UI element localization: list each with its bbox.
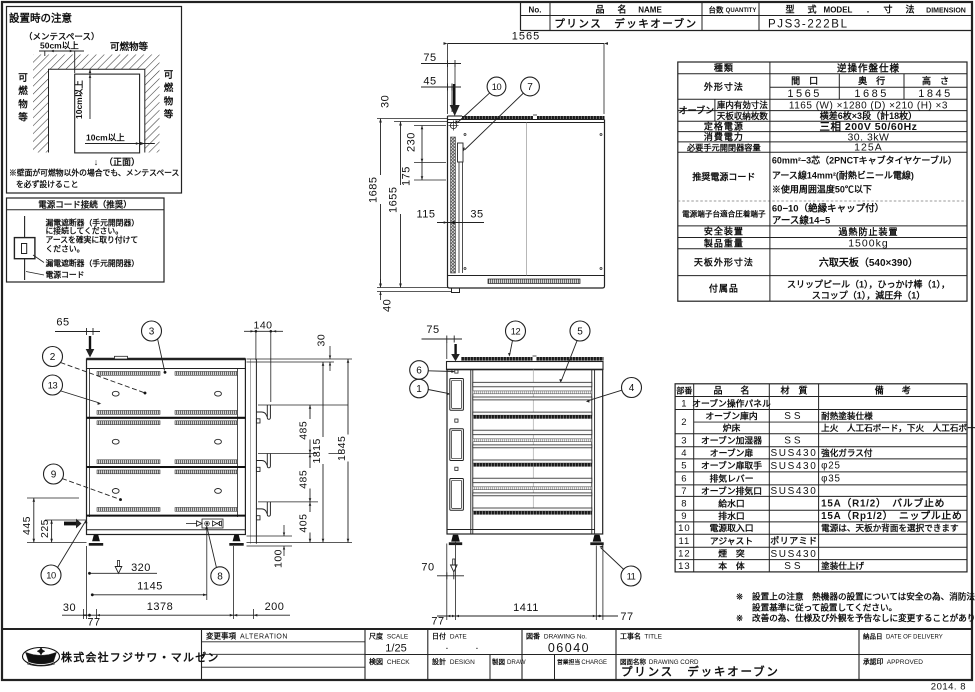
wall hatch region — [33, 55, 160, 153]
svg-text:法: 法 — [905, 4, 914, 15]
balloon 4 — [622, 378, 642, 398]
rear view: power inlet arrow (black, pointing right) — [64, 522, 76, 526]
svg-text:営業担当: 営業担当 — [557, 658, 580, 666]
balloon 7 — [521, 77, 540, 96]
svg-text:8: 8 — [217, 572, 223, 583]
svg-text:1/25: 1/25 — [385, 643, 406, 655]
svg-text:45: 45 — [423, 76, 436, 88]
header table — [520, 2, 522, 31]
svg-text:寸: 寸 — [883, 4, 892, 15]
svg-text:漏電遮断器（手元開閉器）: 漏電遮断器（手元開閉器） — [46, 258, 140, 268]
rear view: inner side rails — [89, 369, 91, 518]
svg-text:SS: SS — [784, 436, 803, 447]
balloon 1 — [410, 379, 429, 398]
svg-text:13: 13 — [678, 561, 691, 572]
svg-text:30: 30 — [316, 334, 328, 347]
svg-text:設置基準に従って設置してください。: 設置基準に従って設置してください。 — [752, 602, 897, 613]
extension lines left — [377, 118, 448, 120]
parts table — [675, 384, 967, 572]
balloon 11 — [621, 566, 641, 586]
rear view dims: bottom chain — [62, 614, 290, 616]
company logo — [23, 648, 60, 666]
front view: column dividers — [470, 370, 472, 535]
svg-text:50cm以上: 50cm以上 — [40, 41, 79, 51]
deck divider dark bar — [473, 463, 592, 466]
svg-text:可: 可 — [164, 70, 174, 81]
svg-text:定格電源: 定格電源 — [703, 121, 744, 132]
rear view dims: 445 left — [27, 497, 79, 499]
svg-text:納品日: 納品日 — [863, 632, 883, 641]
svg-text:過熱防止装置: 過熱防止装置 — [837, 226, 898, 237]
svg-text:名: 名 — [617, 4, 626, 15]
svg-text:台数: 台数 — [709, 5, 724, 15]
svg-text:485: 485 — [298, 421, 310, 440]
svg-text:天板外形寸法: 天板外形寸法 — [694, 257, 754, 268]
front view: chimney strip — [461, 357, 604, 361]
svg-text:設置時の注意: 設置時の注意 — [9, 12, 72, 25]
svg-text:式: 式 — [807, 4, 816, 15]
svg-text:SS: SS — [784, 561, 803, 572]
svg-text:庫内有効寸法: 庫内有効寸法 — [717, 100, 769, 110]
svg-text:φ25: φ25 — [821, 461, 841, 472]
svg-text:100: 100 — [273, 549, 285, 568]
svg-text:スリップピール（1），ひっかけ棒（1），: スリップピール（1），ひっかけ棒（1）， — [787, 278, 950, 289]
rear view: top notch — [115, 356, 128, 359]
svg-text:1565: 1565 — [512, 31, 540, 43]
side view: screw holes — [464, 134, 466, 136]
svg-text:3: 3 — [681, 435, 687, 446]
svg-text:（正面）: （正面） — [104, 157, 140, 167]
deck divider dark bar — [473, 511, 592, 514]
svg-text:を必ず設けること: を必ず設けること — [16, 179, 78, 189]
front view: top plate — [447, 362, 604, 370]
side view: centerline — [526, 123, 528, 276]
svg-text:↓: ↓ — [94, 157, 99, 167]
oven footprint rect — [75, 74, 140, 153]
front view: top entry arrow — [454, 344, 456, 354]
svg-text:3: 3 — [149, 327, 155, 338]
svg-text:プリンス デッキオーブン: プリンス デッキオーブン — [621, 665, 780, 679]
svg-text:5: 5 — [681, 461, 687, 472]
balloons 10 and 7 with leaders — [457, 93, 490, 123]
svg-text:13: 13 — [48, 380, 58, 390]
svg-text:排水口: 排水口 — [718, 510, 744, 521]
svg-text:電源は、天板か背面を選択できます: 電源は、天板か背面を選択できます — [821, 522, 959, 533]
svg-text:9: 9 — [51, 470, 57, 481]
svg-text:※: ※ — [736, 613, 743, 623]
svg-text:125A: 125A — [854, 142, 883, 154]
svg-text:燃: 燃 — [164, 82, 174, 94]
svg-text:変更事項: 変更事項 — [206, 631, 236, 641]
svg-text:75: 75 — [426, 324, 439, 336]
svg-text:35: 35 — [470, 209, 483, 221]
front view: body outline — [447, 370, 603, 535]
svg-text:に接続してください。: に接続してください。 — [46, 226, 124, 236]
svg-text:電源コード接続（推奨）: 電源コード接続（推奨） — [38, 200, 132, 210]
svg-text:DIMENSION: DIMENSION — [926, 7, 966, 14]
svg-text:225: 225 — [39, 519, 51, 538]
svg-text:PJS3-222BL: PJS3-222BL — [768, 18, 849, 30]
rear view dims: 485/485/405 — [309, 405, 311, 543]
svg-text:140: 140 — [253, 319, 272, 331]
svg-text:1815: 1815 — [311, 438, 323, 463]
svg-text:75: 75 — [423, 52, 436, 64]
rear view: vent slot bands — [97, 372, 160, 376]
rear view: balloons — [158, 339, 165, 371]
svg-text:60−10（絶縁キャップ付）: 60−10（絶縁キャップ付） — [772, 203, 884, 215]
svg-text:7: 7 — [527, 82, 533, 93]
side view: chimney strip — [462, 116, 605, 120]
svg-text:4: 4 — [629, 383, 635, 394]
svg-text:高 さ: 高 さ — [922, 75, 949, 86]
balloon 10 — [41, 565, 61, 585]
rear view: feet — [92, 535, 100, 542]
front view: bottom inner line — [447, 529, 595, 531]
svg-text:15A（R1/2） バルブ止め: 15A（R1/2） バルブ止め — [821, 497, 945, 510]
svg-text:10cm以上: 10cm以上 — [86, 133, 125, 143]
svg-text:等: 等 — [17, 112, 28, 124]
svg-text:1845: 1845 — [336, 436, 348, 461]
svg-text:品: 品 — [595, 5, 604, 15]
svg-text:備 考: 備 考 — [875, 385, 911, 396]
dim 230 (vertical) — [421, 126, 423, 163]
svg-text:DESIGN: DESIGN — [450, 659, 475, 666]
svg-text:1655: 1655 — [388, 187, 400, 213]
svg-text:日付: 日付 — [432, 632, 446, 641]
svg-text:APPROVED: APPROVED — [887, 659, 923, 666]
balloon 10 — [487, 77, 506, 96]
svg-text:QUANTITY: QUANTITY — [726, 8, 757, 14]
rear view: top rail line — [87, 368, 246, 370]
svg-text:10cm以上: 10cm以上 — [74, 80, 84, 119]
balloon 13 — [43, 375, 63, 395]
balloon 6 — [410, 361, 429, 380]
balloon 2 — [43, 347, 63, 367]
rear view: oval handles — [112, 391, 119, 396]
svg-text:オーブン扉取手: オーブン扉取手 — [701, 460, 762, 471]
svg-text:スコップ（1），減圧弁（1）: スコップ（1），減圧弁（1） — [812, 290, 926, 301]
svg-text:横差6枚×3段（計18枚）: 横差6枚×3段（計18枚） — [820, 110, 917, 121]
rear view dims: 1145 — [92, 594, 207, 596]
svg-text:塗装仕上げ: 塗装仕上げ — [821, 560, 864, 571]
svg-text:15A（Rp1/2） ニップル止め: 15A（Rp1/2） ニップル止め — [821, 509, 963, 522]
svg-text:230: 230 — [406, 132, 418, 152]
svg-text:推奨電源コード: 推奨電源コード — [692, 171, 755, 182]
svg-text:プリンス デッキオーブン: プリンス デッキオーブン — [554, 17, 697, 30]
deck door bars — [473, 478, 592, 483]
svg-text:品 名: 品 名 — [713, 385, 749, 396]
rear view dims: 225 left — [45, 519, 87, 521]
svg-text:消費電力: 消費電力 — [704, 131, 744, 142]
svg-text:7: 7 — [681, 486, 687, 497]
svg-text:10: 10 — [492, 82, 502, 92]
svg-text:77: 77 — [620, 611, 633, 623]
svg-text:物: 物 — [164, 95, 174, 107]
installation notice box — [7, 7, 182, 194]
svg-text:上火 人工石ボード，下火 人工石ボード: 上火 人工石ボード，下火 人工石ボード — [821, 422, 975, 433]
svg-text:外形寸法: 外形寸法 — [703, 81, 744, 92]
svg-text:図面名称: 図面名称 — [620, 657, 647, 666]
svg-text:製図: 製図 — [491, 657, 506, 666]
svg-text:.: . — [867, 5, 870, 15]
svg-text:200: 200 — [265, 601, 285, 613]
rear view: right door panel lines — [250, 359, 252, 544]
svg-text:可: 可 — [18, 73, 28, 84]
svg-text:MODEL: MODEL — [824, 5, 853, 14]
svg-text:必要手元開閉器容量: 必要手元開閉器容量 — [686, 142, 761, 152]
power cord connection box — [7, 198, 165, 282]
svg-text:奥 行: 奥 行 — [857, 75, 885, 86]
svg-text:65: 65 — [56, 317, 69, 329]
dim 1655 — [400, 122, 402, 288]
svg-text:給水口: 給水口 — [718, 498, 744, 509]
svg-text:2: 2 — [50, 352, 56, 363]
breaker symbol — [24, 216, 26, 238]
rear view: bottom inner line — [87, 529, 246, 531]
side view: exhaust duct lines — [458, 143, 460, 273]
svg-text:型: 型 — [785, 4, 794, 15]
svg-text:オーブン加湿器: オーブン加湿器 — [701, 434, 762, 445]
dim 1685 — [380, 119, 382, 288]
svg-text:検図: 検図 — [369, 657, 383, 666]
svg-text:設計: 設計 — [432, 657, 446, 666]
svg-text:10: 10 — [46, 570, 56, 580]
svg-text:1685: 1685 — [854, 88, 888, 100]
svg-text:DRAW: DRAW — [507, 659, 526, 666]
svg-text:30: 30 — [63, 602, 76, 614]
rear view dims: 1815 — [322, 362, 324, 543]
front view: control panels — [450, 379, 464, 411]
side view: power inlet cross symbol — [450, 122, 456, 128]
svg-text:40: 40 — [382, 299, 394, 312]
rear view: top entry arrow (black down) — [89, 336, 91, 349]
svg-text:1: 1 — [681, 399, 687, 410]
svg-text:物: 物 — [18, 98, 28, 110]
svg-text:DATE OF DELIVERY: DATE OF DELIVERY — [886, 635, 943, 641]
balloon 9 — [44, 464, 64, 484]
rear view dims: 1845 — [347, 359, 349, 543]
hollow drain arrow — [117, 561, 119, 567]
side view: power entry arrow (black) — [453, 84, 456, 105]
svg-text:1: 1 — [416, 384, 422, 395]
svg-text:1411: 1411 — [513, 602, 539, 614]
deck door bars — [473, 430, 592, 435]
deck door bars — [473, 382, 592, 387]
svg-text:電源コード: 電源コード — [46, 270, 85, 280]
10cm vertical dimension — [89, 69, 91, 119]
svg-text:六取天板（540×390）: 六取天板（540×390） — [819, 256, 918, 269]
balloon 8 — [211, 567, 229, 585]
svg-text:SCALE: SCALE — [387, 634, 409, 641]
svg-text:SUS430: SUS430 — [771, 448, 818, 459]
side view: top plate lines — [448, 119, 605, 121]
side view: rear duct hatch strip — [451, 137, 456, 273]
front view: balloons and leaders — [510, 341, 513, 356]
svg-text:アースを確実に取り付けて: アースを確実に取り付けて — [46, 235, 139, 245]
svg-text:逆操作盤仕様: 逆操作盤仕様 — [837, 62, 900, 74]
svg-text:本 体: 本 体 — [717, 560, 745, 571]
svg-text:4: 4 — [681, 448, 687, 459]
rear view dims: 320 — [89, 572, 157, 574]
front view dims: bottom chain 77/1411/77 — [437, 615, 618, 617]
svg-text:煙 突: 煙 突 — [718, 548, 745, 559]
svg-text:オーブン: オーブン — [679, 105, 714, 116]
title block — [2, 628, 972, 630]
svg-text:天板収納枚数: 天板収納枚数 — [717, 111, 769, 121]
svg-text:強化ガラス付: 強化ガラス付 — [821, 447, 873, 458]
svg-text:種類: 種類 — [714, 62, 734, 73]
svg-text:株式会社フジサワ・マルゼン: 株式会社フジサワ・マルゼン — [61, 650, 220, 664]
svg-text:175: 175 — [401, 166, 413, 186]
svg-text:承認印: 承認印 — [863, 657, 884, 666]
svg-text:115: 115 — [416, 209, 435, 221]
svg-text:No.: No. — [529, 5, 542, 14]
svg-text:11: 11 — [627, 571, 636, 581]
svg-text:工事名: 工事名 — [620, 632, 641, 641]
svg-text:8: 8 — [681, 499, 687, 510]
balloon 5 — [570, 321, 590, 341]
specification table — [678, 62, 967, 301]
svg-text:DRAWING CORD: DRAWING CORD — [649, 659, 699, 666]
dim 175 (vertical) — [421, 163, 423, 181]
svg-text:CHARGE: CHARGE — [581, 660, 607, 666]
svg-text:間 口: 間 口 — [791, 76, 818, 86]
deck divider dark bar — [473, 415, 592, 418]
rear view dims: 100 right bottom — [247, 535, 293, 537]
svg-text:アース線14−5: アース線14−5 — [772, 215, 831, 227]
balloon 3 — [142, 321, 162, 341]
svg-text:アース線14mm²(耐熱ビニール電線): アース線14mm²(耐熱ビニール電線) — [772, 170, 914, 181]
svg-text:オーブン排気口: オーブン排気口 — [701, 485, 762, 496]
svg-text:※壁面が可燃物以外の場合でも、メンテスペース: ※壁面が可燃物以外の場合でも、メンテスペース — [9, 168, 180, 178]
rear view: deck divider bars — [87, 417, 246, 419]
svg-text:70: 70 — [421, 562, 434, 574]
svg-text:·: · — [475, 643, 479, 655]
svg-text:オーブン操作パネル: オーブン操作パネル — [692, 398, 771, 409]
svg-text:排気レバー: 排気レバー — [710, 473, 754, 484]
svg-text:付属品: 付属品 — [709, 283, 739, 294]
svg-text:図番: 図番 — [526, 632, 541, 641]
svg-text:SUS430: SUS430 — [771, 486, 818, 497]
svg-text:·: · — [445, 643, 449, 655]
svg-text:12: 12 — [678, 549, 691, 560]
svg-text:2: 2 — [681, 417, 687, 428]
svg-text:可燃物等: 可燃物等 — [110, 41, 149, 53]
svg-text:6: 6 — [681, 474, 687, 485]
svg-text:1845: 1845 — [918, 88, 952, 100]
dim 1565 (top) — [448, 43, 605, 45]
svg-text:改善の為、仕様及び外観を予告なしに変更することがあります。: 改善の為、仕様及び外観を予告なしに変更することがあります。 — [752, 612, 975, 623]
svg-text:尺度: 尺度 — [368, 632, 384, 641]
svg-text:77: 77 — [431, 616, 444, 628]
svg-text:※使用周囲温度50℃以下: ※使用周囲温度50℃以下 — [772, 184, 872, 195]
side view: foot — [452, 288, 460, 293]
svg-text:燃: 燃 — [18, 85, 28, 97]
front view: hollow arrow — [453, 559, 455, 565]
svg-text:設置上の注意 熱機器の設置については安全の為、消防法の: 設置上の注意 熱機器の設置については安全の為、消防法の — [752, 591, 975, 602]
svg-text:CHECK: CHECK — [387, 659, 410, 666]
svg-text:SUS430: SUS430 — [771, 461, 818, 472]
svg-text:製品重量: 製品重量 — [703, 237, 744, 248]
svg-text:ポリアミド: ポリアミド — [770, 535, 817, 546]
svg-text:6: 6 — [416, 366, 422, 377]
rear view: body outline — [87, 359, 246, 535]
svg-text:5: 5 — [577, 327, 583, 338]
svg-text:10: 10 — [678, 523, 691, 534]
svg-text:ください。: ください。 — [46, 244, 85, 253]
50cm dimension — [39, 50, 84, 52]
svg-text:耐熱塗装仕様: 耐熱塗装仕様 — [821, 410, 873, 421]
svg-text:1378: 1378 — [147, 601, 173, 613]
svg-text:材 質: 材 質 — [779, 385, 807, 396]
svg-text:485: 485 — [298, 470, 310, 489]
svg-text:ALTERATION: ALTERATION — [240, 633, 288, 640]
svg-text:炉床: 炉床 — [723, 422, 741, 433]
svg-text:電源端子台適合圧着端子: 電源端子台適合圧着端子 — [682, 209, 766, 219]
side view: base — [448, 275, 605, 277]
svg-text:320: 320 — [131, 562, 151, 574]
svg-text:12: 12 — [511, 326, 521, 336]
svg-text:9: 9 — [681, 511, 687, 522]
svg-text:60mm²−3芯（2PNCTキャブタイヤケーブル）: 60mm²−3芯（2PNCTキャブタイヤケーブル） — [772, 155, 957, 166]
svg-text:※: ※ — [736, 592, 743, 602]
svg-text:アジャスト: アジャスト — [710, 536, 753, 546]
front view: center line — [532, 370, 534, 515]
svg-text:DATE: DATE — [450, 634, 468, 641]
side view: oven body — [448, 116, 605, 288]
svg-text:77: 77 — [87, 617, 100, 629]
rear view: door handle bars (hooks) — [267, 405, 270, 419]
svg-text:06040: 06040 — [548, 641, 590, 655]
svg-text:SS: SS — [784, 411, 803, 422]
svg-text:2014. 8: 2014. 8 — [931, 682, 966, 692]
svg-text:等: 等 — [163, 109, 174, 121]
svg-text:1165 (W) ×1280 (D) ×210 (H) ×3: 1165 (W) ×1280 (D) ×210 (H) ×3 — [789, 100, 948, 111]
svg-text:オーブン庫内: オーブン庫内 — [705, 410, 757, 421]
balloon 12 — [506, 321, 526, 341]
rear view: water valve assembly — [186, 523, 197, 525]
svg-text:405: 405 — [298, 514, 310, 533]
svg-text:オーブン扉: オーブン扉 — [710, 447, 754, 458]
svg-text:1500kg: 1500kg — [848, 238, 888, 250]
rear view dims: handle extension lines — [258, 404, 348, 406]
svg-text:NAME: NAME — [638, 5, 662, 14]
svg-text:1685: 1685 — [368, 177, 380, 203]
svg-text:SUS430: SUS430 — [771, 549, 818, 560]
svg-text:TITLE: TITLE — [644, 634, 662, 641]
svg-text:DRAWING No.: DRAWING No. — [544, 634, 587, 641]
svg-text:安全装置: 安全装置 — [704, 226, 744, 237]
front view: exhaust lever squares — [455, 370, 458, 373]
svg-text:φ35: φ35 — [821, 474, 841, 485]
svg-text:1565: 1565 — [787, 88, 821, 100]
svg-text:電源取入口: 電源取入口 — [710, 522, 754, 533]
front view: feet — [451, 535, 460, 542]
svg-text:1145: 1145 — [137, 581, 163, 593]
breaker leader lines — [33, 255, 44, 263]
svg-text:30: 30 — [380, 95, 392, 108]
svg-text:11: 11 — [678, 536, 690, 547]
svg-text:部番: 部番 — [676, 386, 693, 396]
svg-text:445: 445 — [21, 516, 33, 535]
